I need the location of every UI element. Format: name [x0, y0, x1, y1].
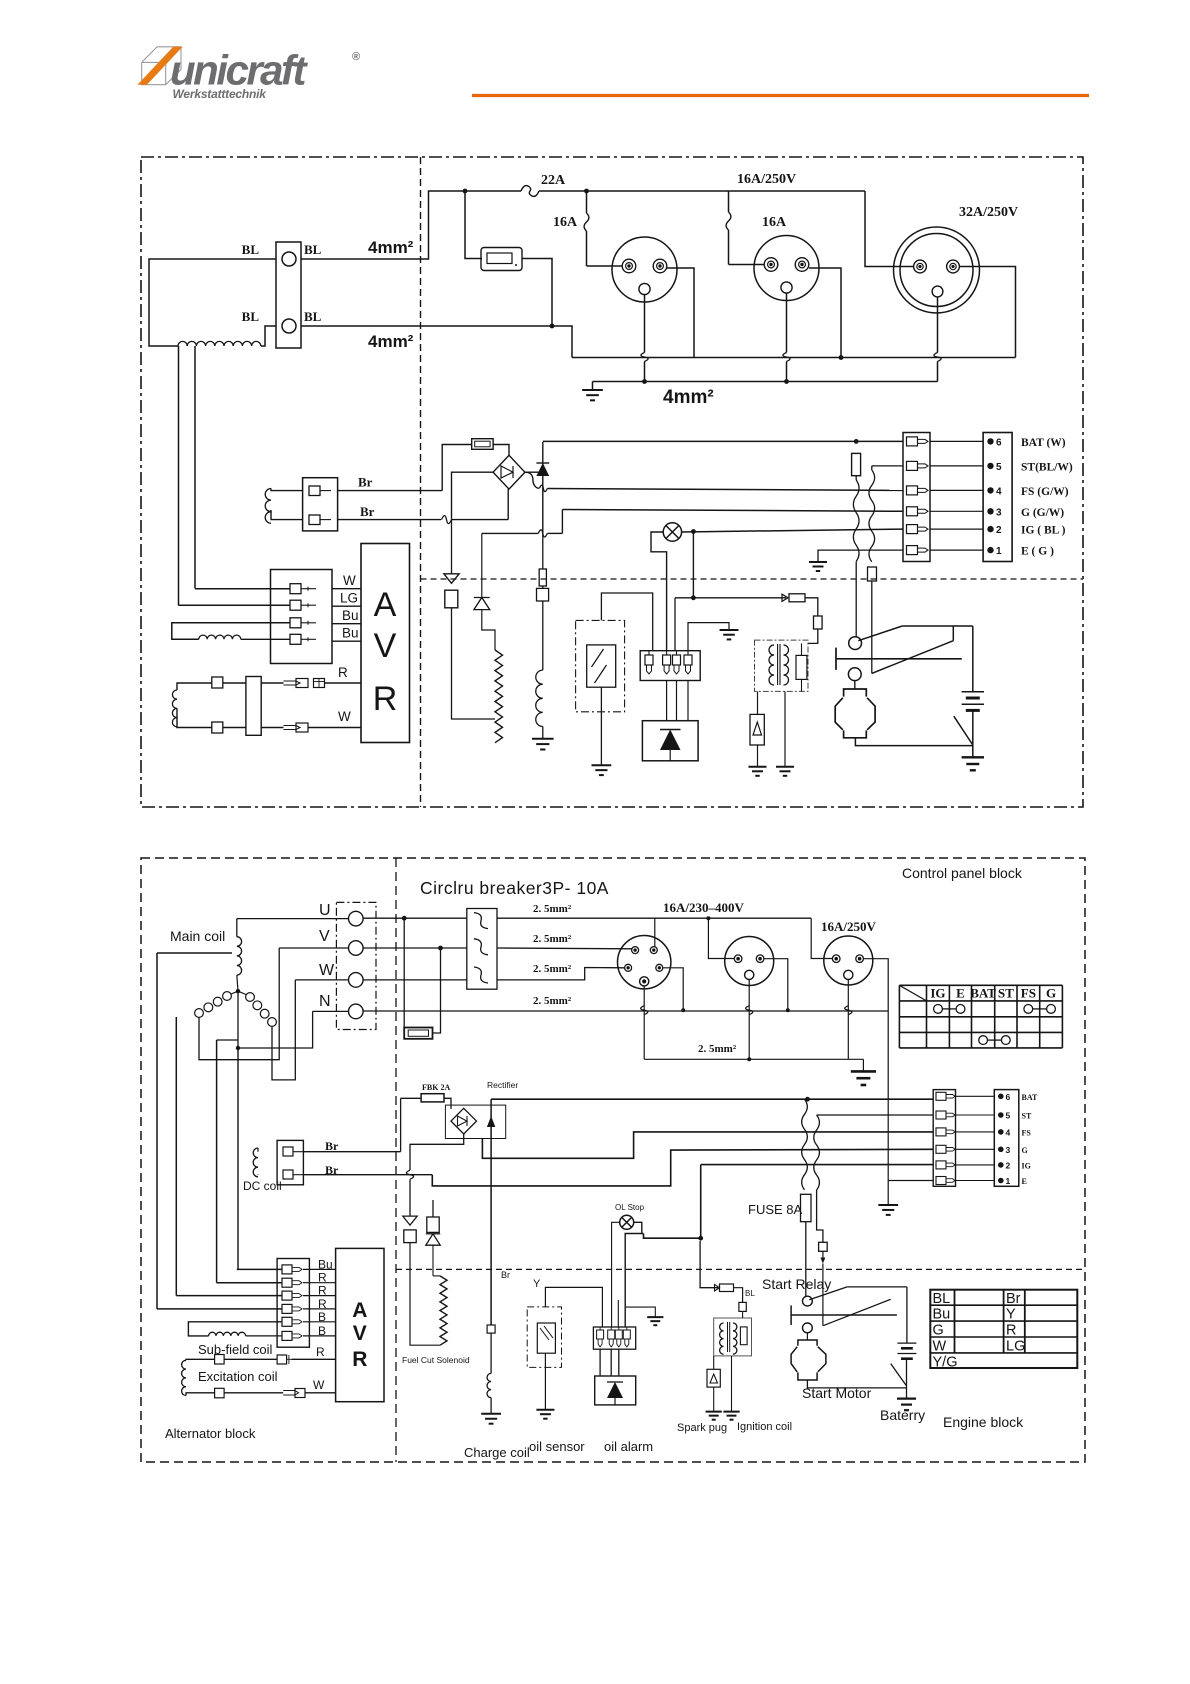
svg-text:FS: FS — [1021, 986, 1036, 1001]
svg-text:BL: BL — [933, 1291, 951, 1307]
svg-text:BAT (W): BAT (W) — [1021, 437, 1066, 449]
svg-text:Br: Br — [1006, 1291, 1021, 1307]
svg-text:Charge coil: Charge coil — [464, 1445, 530, 1460]
svg-text:BL: BL — [304, 309, 322, 324]
svg-text:Main coil: Main coil — [170, 928, 225, 944]
svg-text:W: W — [338, 709, 351, 724]
svg-text:32A/250V: 32A/250V — [959, 205, 1018, 220]
svg-text:R: R — [352, 1348, 367, 1371]
svg-text:oil alarm: oil alarm — [604, 1439, 653, 1454]
svg-text:Y/G: Y/G — [933, 1354, 958, 1370]
svg-text:Werkstatttechnik: Werkstatttechnik — [173, 87, 268, 101]
svg-text:V: V — [353, 1322, 367, 1345]
svg-text:V: V — [374, 627, 397, 665]
svg-text:Ignition coil: Ignition coil — [737, 1421, 792, 1433]
svg-text:ST: ST — [998, 986, 1014, 1001]
svg-text:W: W — [343, 573, 356, 588]
svg-text:R: R — [318, 1271, 327, 1285]
svg-text:1: 1 — [996, 546, 1002, 557]
svg-text:16A: 16A — [553, 215, 578, 230]
svg-text:6: 6 — [996, 437, 1002, 448]
svg-text:A: A — [352, 1299, 367, 1322]
svg-text:IG: IG — [1022, 1161, 1031, 1170]
svg-text:Y: Y — [1006, 1307, 1016, 1323]
svg-text:V: V — [319, 928, 330, 945]
svg-text:R: R — [338, 665, 348, 680]
svg-text:U: U — [319, 902, 331, 919]
svg-text:2. 5mm²: 2. 5mm² — [533, 963, 572, 975]
svg-text:BAT: BAT — [1022, 1093, 1039, 1102]
svg-text:2. 5mm²: 2. 5mm² — [533, 995, 572, 1007]
svg-text:BL: BL — [242, 242, 260, 257]
svg-text:Br: Br — [360, 504, 375, 519]
svg-text:IG ( BL ): IG ( BL ) — [1021, 525, 1066, 537]
svg-text:3: 3 — [1006, 1145, 1011, 1155]
svg-text:Control panel block: Control panel block — [902, 865, 1023, 881]
svg-text:E: E — [956, 986, 965, 1001]
svg-text:4: 4 — [1006, 1127, 1011, 1137]
svg-text:2. 5mm²: 2. 5mm² — [698, 1043, 737, 1055]
svg-text:W: W — [933, 1339, 947, 1355]
svg-text:G: G — [933, 1323, 944, 1339]
svg-text:E ( G ): E ( G ) — [1021, 546, 1054, 558]
svg-text:N: N — [319, 993, 331, 1010]
svg-text:OL Stop: OL Stop — [615, 1203, 645, 1212]
svg-text:IG: IG — [930, 986, 945, 1001]
svg-text:®: ® — [352, 51, 360, 63]
svg-text:ST: ST — [1022, 1112, 1032, 1121]
svg-text:G: G — [1022, 1146, 1028, 1155]
svg-text:4: 4 — [996, 486, 1002, 497]
svg-text:Engine block: Engine block — [943, 1414, 1024, 1430]
svg-text:4mm²: 4mm² — [368, 332, 414, 351]
svg-text:2: 2 — [996, 525, 1002, 536]
svg-text:16A/250V: 16A/250V — [737, 172, 796, 187]
svg-text:Bu: Bu — [342, 626, 359, 641]
svg-text:FS (G/W): FS (G/W) — [1021, 486, 1069, 498]
svg-text:Br: Br — [325, 1139, 339, 1153]
svg-text:Bu: Bu — [318, 1257, 333, 1271]
svg-text:DC coil: DC coil — [243, 1179, 282, 1193]
svg-text:2: 2 — [1006, 1160, 1011, 1170]
svg-text:BL: BL — [242, 309, 260, 324]
svg-text:R: R — [318, 1284, 327, 1298]
svg-text:6: 6 — [1006, 1092, 1011, 1102]
svg-text:FUSE 8A: FUSE 8A — [748, 1202, 803, 1217]
svg-text:R: R — [316, 1345, 325, 1359]
svg-text:Start Relay: Start Relay — [762, 1276, 831, 1292]
svg-text:Spark pug: Spark pug — [677, 1422, 727, 1434]
svg-text:Y: Y — [533, 1278, 541, 1290]
svg-text:G: G — [1046, 986, 1056, 1001]
svg-text:Baterry: Baterry — [880, 1407, 925, 1423]
svg-text:BL: BL — [304, 242, 322, 257]
svg-text:Bu: Bu — [342, 608, 359, 623]
svg-text:Excitation coil: Excitation coil — [198, 1369, 278, 1384]
svg-text:2. 5mm²: 2. 5mm² — [533, 903, 572, 915]
svg-text:16A: 16A — [762, 215, 787, 230]
svg-text:W: W — [313, 1378, 325, 1392]
svg-text:5: 5 — [996, 462, 1002, 473]
svg-text:Rectifier: Rectifier — [487, 1080, 518, 1090]
svg-text:E: E — [1022, 1177, 1027, 1186]
svg-text:Sub-field coil: Sub-field coil — [198, 1342, 273, 1357]
svg-text:Start Motor: Start Motor — [802, 1385, 872, 1401]
svg-text:oil sensor: oil sensor — [529, 1439, 585, 1454]
svg-text:FBK 2A: FBK 2A — [422, 1083, 450, 1092]
svg-text:22A: 22A — [541, 173, 566, 188]
svg-text:Br: Br — [358, 475, 373, 490]
svg-text:Circlru breaker3P- 10A: Circlru breaker3P- 10A — [420, 878, 609, 898]
svg-text:4mm²: 4mm² — [368, 238, 414, 257]
svg-text:3: 3 — [996, 507, 1002, 518]
svg-text:LG: LG — [340, 591, 358, 606]
svg-text:16A/250V: 16A/250V — [821, 919, 877, 934]
svg-text:BL: BL — [745, 1289, 755, 1298]
svg-text:1: 1 — [1006, 1176, 1011, 1186]
svg-text:Fuel Cut Solenoid: Fuel Cut Solenoid — [402, 1355, 470, 1365]
svg-text:LG: LG — [1006, 1339, 1025, 1355]
svg-text:16A/230–400V: 16A/230–400V — [663, 900, 745, 915]
svg-text:Alternator block: Alternator block — [165, 1426, 256, 1441]
svg-text:G (G/W): G (G/W) — [1021, 507, 1064, 519]
svg-text:A: A — [374, 586, 397, 624]
svg-text:Br: Br — [501, 1270, 510, 1280]
svg-text:R: R — [1006, 1323, 1016, 1339]
svg-text:R: R — [373, 680, 398, 718]
svg-text:4mm²: 4mm² — [663, 387, 714, 408]
svg-text:B: B — [318, 1324, 326, 1338]
svg-text:FS: FS — [1022, 1128, 1032, 1137]
svg-text:BAT: BAT — [970, 986, 996, 1001]
svg-text:B: B — [318, 1310, 326, 1324]
svg-text:W: W — [319, 962, 335, 979]
svg-text:R: R — [318, 1297, 327, 1311]
svg-text:2. 5mm²: 2. 5mm² — [533, 933, 572, 945]
svg-text:5: 5 — [1006, 1111, 1011, 1121]
svg-text:Bu: Bu — [933, 1307, 951, 1323]
svg-text:ST(BL/W): ST(BL/W) — [1021, 461, 1073, 473]
